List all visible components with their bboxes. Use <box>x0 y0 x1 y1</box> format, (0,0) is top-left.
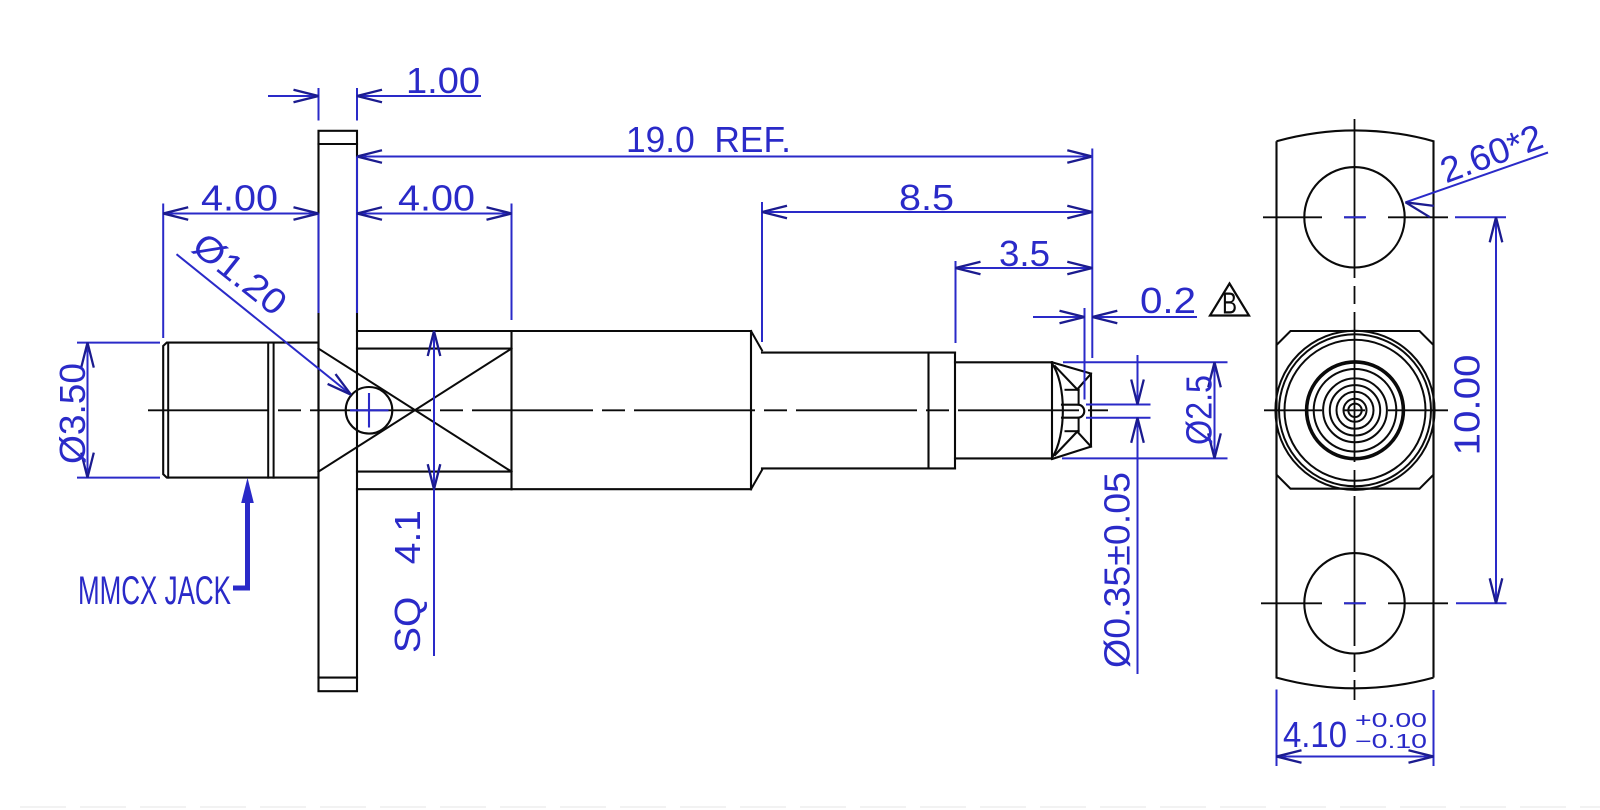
dimension 8.5 <box>761 202 763 342</box>
top hole crosshair <box>1263 216 1322 218</box>
MMCX jack barrel outline (Ø3.50 body) <box>163 343 318 478</box>
svg-text:19.0 REF.: 19.0 REF. <box>626 119 791 160</box>
svg-text:4.00: 4.00 <box>201 178 278 219</box>
dimension 4.00 barrel length <box>162 204 164 339</box>
blue center tick bottom hole <box>1344 602 1366 604</box>
dimension 0.2 tip step <box>1084 308 1086 400</box>
ext overlay on flange right edge <box>356 157 358 314</box>
square face X diagonal 1 <box>319 349 512 472</box>
front view vertical centerline <box>1354 119 1356 278</box>
circle Ø0.35 socket <box>1348 404 1361 417</box>
svg-text:SQ 4.1: SQ 4.1 <box>387 510 428 653</box>
svg-text:Ø2.5: Ø2.5 <box>1179 375 1220 445</box>
center socket slot <box>1062 405 1084 418</box>
crown V notch bottom <box>1055 432 1091 455</box>
svg-text:8.5: 8.5 <box>899 177 954 218</box>
Ø1.20 hole circle <box>346 387 393 434</box>
blue center cross of Ø1.20 hole <box>350 409 389 411</box>
dimension Ø0.35±0.05 socket <box>1086 404 1151 406</box>
ext overlay on flange left edge <box>318 214 320 314</box>
side view centerline <box>148 409 1108 411</box>
svg-text:Ø0.35±0.05: Ø0.35±0.05 <box>1097 472 1138 668</box>
square body front view octagon <box>1277 331 1434 489</box>
main cylinder body <box>512 330 752 332</box>
flange top cap line <box>319 143 358 145</box>
circle Ø1.65 <box>1323 378 1387 442</box>
svg-text:10.00: 10.00 <box>1447 355 1488 456</box>
flange plate side view <box>319 131 358 691</box>
svg-text:B: B <box>1222 286 1237 321</box>
svg-text:Ø3.50: Ø3.50 <box>52 363 93 464</box>
svg-text:4.10: 4.10 <box>1283 714 1347 755</box>
barrel groove double line <box>267 343 269 478</box>
faint page edge mark <box>20 806 1600 808</box>
ring groove line <box>927 353 929 469</box>
flange bottom cap line <box>319 677 358 679</box>
step face <box>954 353 956 469</box>
blue center tick top hole <box>1344 216 1366 218</box>
circle Ø2.15 <box>1314 369 1397 452</box>
crown V notch top <box>1055 366 1091 389</box>
bottom hole crosshair <box>1261 602 1322 604</box>
cylinder Ø2.5 section <box>955 361 1052 363</box>
chamfer to next cylinder <box>751 331 762 350</box>
leader Ø1.20 <box>177 254 352 395</box>
circle Ø2.5 bold <box>1307 362 1404 459</box>
square face X diagonal 2 <box>319 349 512 472</box>
crown inner ledge top <box>1066 389 1079 391</box>
circle Ø0.95 <box>1337 392 1374 429</box>
dimension 1.00 flange thickness <box>318 88 320 121</box>
svg-text:3.5: 3.5 <box>999 233 1050 274</box>
svg-text:MMCX JACK: MMCX JACK <box>78 569 231 613</box>
dimension Ø2.5 <box>1063 361 1228 363</box>
dimension 4.10 flange width <box>1276 690 1278 767</box>
svg-text:1.00: 1.00 <box>406 60 480 101</box>
center crosshair <box>1264 409 1322 411</box>
mount hole bottom Ø2.6 <box>1304 553 1404 653</box>
mount hole top Ø2.6 <box>1304 167 1404 267</box>
datum flag B <box>1210 284 1249 316</box>
svg-text:+0.00: +0.00 <box>1355 710 1427 732</box>
dimension SQ 4.1 <box>433 331 435 656</box>
circle Ø1.30 <box>1330 385 1380 435</box>
crown snap tip <box>1051 362 1053 459</box>
cylinder Ø3.0 section <box>762 352 955 354</box>
crown waist arc <box>1052 364 1063 458</box>
circle Ø0.60 <box>1344 399 1367 422</box>
dimension Ø3.50 <box>77 342 160 344</box>
circle Ø3.95 <box>1279 334 1431 486</box>
square body section SQ 4.1 <box>357 330 512 332</box>
leader MMCX JACK thick arrow <box>233 500 248 588</box>
dimension 10.00 hole pitch <box>1455 216 1506 218</box>
circle Ø4.1 outer <box>1275 331 1434 490</box>
svg-text:−0.10: −0.10 <box>1355 731 1427 753</box>
flange front view outline <box>1277 130 1434 688</box>
barrel left face inner line <box>167 343 169 478</box>
dimension 4.00 square section length <box>511 204 513 321</box>
svg-text:4.00: 4.00 <box>398 178 475 219</box>
leader 2.60*2 mount holes <box>1406 153 1549 203</box>
dimension 3.5 <box>955 261 957 343</box>
crown inner ledge bottom <box>1066 430 1079 432</box>
svg-text:0.2: 0.2 <box>1140 280 1196 321</box>
dimension 19.0 REF. overall length <box>357 156 1092 158</box>
circle Ø3.65 <box>1285 340 1426 481</box>
